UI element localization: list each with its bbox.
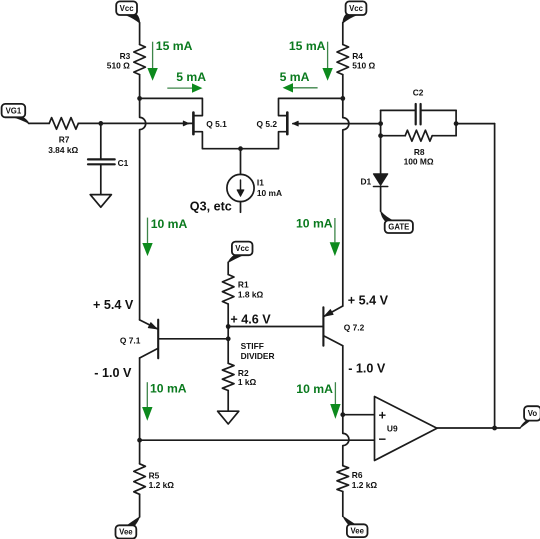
svg-text:10 mA: 10 mA — [296, 217, 333, 231]
svg-text:10 mA: 10 mA — [150, 382, 187, 396]
resistor R3 — [134, 45, 146, 75]
resistor R8 — [381, 135, 406, 137]
op-amp U9 — [375, 397, 438, 461]
wire base Q7.1 — [159, 338, 228, 340]
junction — [238, 146, 243, 151]
wire — [29, 122, 50, 124]
power flag Vee (bottom right) — [343, 516, 368, 537]
diode D1 — [374, 174, 388, 185]
svg-text:R4: R4 — [352, 51, 363, 61]
current arrow 10 mA (upper left) — [142, 218, 152, 257]
svg-text:15 mA: 15 mA — [289, 39, 326, 53]
svg-text:+ 4.6 V: + 4.6 V — [230, 312, 271, 326]
wire — [140, 98, 146, 320]
power flag Vcc (middle) — [228, 242, 253, 263]
wire — [343, 346, 349, 465]
wire — [455, 110, 457, 135]
svg-text:10 mA: 10 mA — [151, 217, 188, 231]
svg-text:3.84 kΩ: 3.84 kΩ — [48, 145, 78, 155]
junction — [340, 96, 345, 101]
wire — [78, 122, 101, 124]
wire — [227, 262, 229, 274]
svg-text:C1: C1 — [118, 158, 129, 168]
output flag Vo — [520, 406, 540, 428]
svg-text:- 1.0 V: - 1.0 V — [348, 361, 386, 375]
svg-text:5 mA: 5 mA — [176, 70, 206, 84]
wire — [279, 98, 343, 115]
svg-text:Q 5.2: Q 5.2 — [257, 119, 278, 129]
transistor Q5.2 — [241, 113, 299, 149]
power flag Vcc (top right) — [343, 1, 367, 23]
wire — [437, 427, 520, 429]
svg-text:10 mA: 10 mA — [257, 188, 282, 198]
wire — [380, 187, 382, 212]
ground — [218, 411, 239, 424]
svg-text:R5: R5 — [149, 470, 160, 480]
svg-text:−: − — [379, 432, 387, 447]
wire — [342, 23, 344, 45]
svg-text:15 mA: 15 mA — [156, 39, 193, 53]
wire — [343, 98, 349, 306]
junction — [137, 96, 142, 101]
resistor R1 — [222, 275, 234, 305]
wire — [342, 75, 344, 99]
wire — [227, 304, 229, 339]
svg-text:- 1.0 V: - 1.0 V — [94, 366, 132, 380]
svg-text:1 kΩ: 1 kΩ — [238, 377, 257, 387]
node left of R8/C2 box — [380, 110, 382, 173]
svg-text:510 Ω: 510 Ω — [107, 60, 130, 70]
power flag Vee (bottom left) — [116, 517, 140, 539]
svg-text:510 Ω: 510 Ω — [352, 60, 375, 70]
junction — [454, 121, 459, 126]
capacitor C1 — [88, 158, 115, 160]
svg-text:VG1: VG1 — [6, 106, 22, 115]
svg-text:100 MΩ: 100 MΩ — [404, 156, 434, 166]
svg-text:Vcc: Vcc — [120, 4, 135, 13]
wire — [100, 165, 102, 195]
resistor R2 — [222, 363, 234, 390]
current arrow 5 mA (left, pointing right) — [167, 83, 202, 92]
svg-text:+: + — [379, 408, 387, 423]
svg-text:Q 5.1: Q 5.1 — [206, 119, 227, 129]
svg-text:Vo: Vo — [528, 409, 538, 418]
wire — [140, 98, 203, 115]
flag GATE — [381, 211, 413, 233]
svg-text:10 mA: 10 mA — [296, 382, 333, 396]
svg-text:R1: R1 — [238, 280, 249, 290]
svg-text:+ 5.4 V: + 5.4 V — [93, 298, 134, 312]
current arrow 10 mA (lower left) — [142, 382, 152, 421]
transistor Q7.2 — [323, 306, 342, 346]
svg-text:+ 5.4 V: + 5.4 V — [348, 294, 389, 308]
junction — [492, 426, 497, 431]
current arrow 5 mA (right, pointing left) — [283, 83, 318, 92]
resistor R6 — [342, 464, 344, 467]
power flag Vcc (top left) — [116, 1, 140, 23]
wire — [240, 149, 242, 175]
wire — [298, 123, 380, 125]
resistor R5 — [139, 440, 141, 464]
current arrow 15 mA (left) — [147, 42, 157, 81]
capacitor C2 — [415, 104, 417, 124]
wire — [101, 122, 193, 124]
svg-text:Vcc: Vcc — [235, 244, 250, 253]
wire — [456, 123, 495, 125]
svg-text:GATE: GATE — [388, 223, 409, 232]
svg-text:1.2 kΩ: 1.2 kΩ — [149, 480, 175, 490]
wire — [494, 124, 496, 428]
svg-text:D1: D1 — [360, 177, 371, 187]
wire — [139, 75, 141, 99]
current source I1 — [227, 174, 254, 201]
svg-text:STIFF: STIFF — [241, 341, 264, 351]
transistor Q5.1 — [183, 113, 241, 149]
svg-text:Q 7.1: Q 7.1 — [120, 336, 141, 346]
wire — [139, 23, 141, 45]
svg-text:C2: C2 — [413, 87, 424, 97]
junction — [226, 336, 231, 341]
svg-text:Vcc: Vcc — [349, 4, 364, 13]
svg-text:1.8 kΩ: 1.8 kΩ — [238, 289, 264, 299]
ground — [90, 195, 111, 208]
svg-text:R7: R7 — [59, 135, 70, 145]
wire — [139, 358, 141, 440]
svg-text:DIVIDER: DIVIDER — [241, 351, 275, 361]
svg-text:R6: R6 — [352, 470, 363, 480]
wire — [343, 414, 375, 416]
current arrow 10 mA (lower right) — [330, 382, 340, 419]
current arrow 15 mA (right) — [322, 42, 332, 81]
junction — [340, 412, 345, 417]
wire — [100, 123, 102, 158]
svg-text:5 mA: 5 mA — [280, 70, 310, 84]
svg-text:Vee: Vee — [350, 527, 364, 536]
wire — [140, 439, 375, 441]
junction — [98, 121, 103, 126]
wire — [381, 109, 457, 111]
resistor R4 — [337, 45, 349, 75]
junction — [226, 324, 231, 329]
svg-text:Q3, etc: Q3, etc — [190, 199, 232, 213]
svg-text:Vee: Vee — [119, 528, 133, 537]
resistor R7 — [49, 118, 78, 130]
wire — [227, 391, 229, 412]
current arrow 10 mA (upper right) — [330, 218, 340, 256]
svg-text:Q 7.2: Q 7.2 — [344, 323, 365, 333]
input flag VG1 — [2, 104, 30, 124]
svg-text:I1: I1 — [257, 178, 264, 188]
junction — [137, 438, 142, 443]
transistor Q7.1 — [140, 320, 159, 359]
svg-text:1.2 kΩ: 1.2 kΩ — [352, 480, 378, 490]
svg-text:R3: R3 — [120, 51, 131, 61]
wire — [240, 202, 242, 213]
svg-text:U9: U9 — [387, 424, 398, 434]
wire node to R2 — [227, 339, 229, 364]
junction — [378, 133, 383, 138]
junction — [378, 121, 383, 126]
wire base Q7.2 — [228, 326, 322, 328]
